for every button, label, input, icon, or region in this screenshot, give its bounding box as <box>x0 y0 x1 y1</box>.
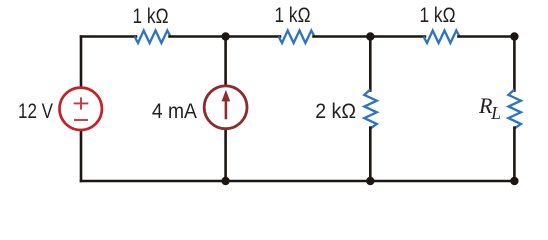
wire top segment R2 to node B <box>314 35 426 38</box>
resistor R1 1 kOhm horizontal zigzag <box>135 31 171 44</box>
node A junction dot top of current source <box>221 32 229 40</box>
current source IS 4mA circle <box>204 86 247 129</box>
resistor RL vertical zigzag <box>508 90 521 129</box>
plus sign of voltage source <box>74 97 89 109</box>
wire bottom rail <box>81 180 514 183</box>
svg-text:2 kΩ: 2 kΩ <box>315 99 356 123</box>
wire 2 kOhm branch lower stub <box>369 128 372 181</box>
wire RL branch upper stub <box>513 37 516 91</box>
resistor R2 1 kOhm horizontal zigzag <box>279 31 315 44</box>
wire top segment left corner to R1 <box>81 35 136 38</box>
svg-text:RL: RL <box>478 93 501 123</box>
wire top segment R3 to node C <box>459 35 515 38</box>
wire 2 kOhm branch upper stub <box>369 37 372 91</box>
current source arrow head <box>222 90 231 102</box>
wire current source branch <box>224 37 227 182</box>
junction dot bottom of current source <box>221 177 229 185</box>
wire left branch with voltage source <box>80 37 83 182</box>
svg-text:12 V: 12 V <box>18 99 54 123</box>
minus sign of voltage source <box>74 119 88 121</box>
node C junction dot top right <box>510 32 518 40</box>
resistor 2 kOhm vertical zigzag <box>364 90 377 129</box>
svg-text:1 kΩ: 1 kΩ <box>275 3 311 27</box>
svg-text:4 mA: 4 mA <box>152 99 198 123</box>
wire RL branch lower stub <box>513 128 516 181</box>
resistor R3 1 kOhm horizontal zigzag <box>424 31 460 44</box>
current source arrow shaft <box>225 100 228 119</box>
junction dot bottom right <box>510 177 518 185</box>
junction dot bottom of 2k <box>366 177 374 185</box>
voltage source VS 12V circle <box>59 88 101 130</box>
node B junction dot top of 2k <box>366 32 374 40</box>
wire top segment R1 to node A <box>170 35 281 38</box>
svg-text:1 kΩ: 1 kΩ <box>133 4 169 28</box>
svg-text:1 kΩ: 1 kΩ <box>420 3 456 27</box>
